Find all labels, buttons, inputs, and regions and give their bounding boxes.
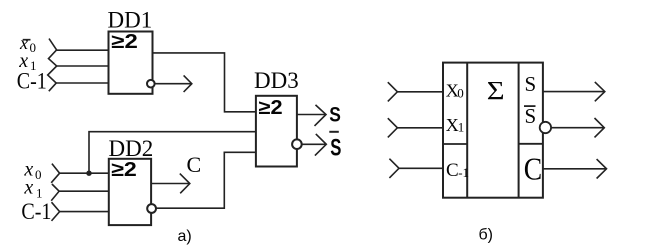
input chevron DD2 input 2 xyxy=(51,184,59,201)
svg-text:S: S xyxy=(330,135,341,162)
svg-text:0: 0 xyxy=(30,40,37,55)
gate DD2 box xyxy=(109,159,151,225)
wire DD2 input 3 xyxy=(60,211,109,213)
wire adder output C arrow xyxy=(543,168,606,170)
svg-text:≥2: ≥2 xyxy=(111,157,137,180)
svg-text:S: S xyxy=(329,103,341,127)
inversion bubble DD3 xyxy=(292,139,302,149)
inversion bubble DD1 xyxy=(147,80,155,88)
svg-text:S: S xyxy=(525,104,537,128)
gate DD3 box xyxy=(256,96,297,167)
overline of S̄ label xyxy=(329,131,339,133)
adder block outer box xyxy=(443,63,543,198)
wire DD2 output C arrow xyxy=(151,183,189,185)
arrowhead DD3 inverted output xyxy=(315,134,326,156)
svg-text:C: C xyxy=(446,160,459,181)
adder block divider right xyxy=(518,63,520,198)
junction dot on x0 wire xyxy=(86,171,91,176)
wire branch x0 to DD3 input 2 xyxy=(89,132,256,174)
arrowhead DD1 inverted output xyxy=(184,75,192,92)
svg-text:C: C xyxy=(524,153,542,187)
input chevron DD2 input 1 xyxy=(51,164,59,183)
pin label C-1 xyxy=(446,160,469,181)
wire adder input C-1 xyxy=(399,167,443,169)
svg-text:DD3: DD3 xyxy=(254,68,299,93)
input chevron adder X0 xyxy=(388,82,398,101)
inversion bubble adder S̄ output xyxy=(540,122,551,133)
wire adder output S̄ arrow xyxy=(551,127,604,129)
svg-text:≥2: ≥2 xyxy=(111,30,138,53)
arrowhead adder output S xyxy=(595,82,605,101)
wire DD2 input 2 xyxy=(59,190,109,192)
wire DD3 output S arrow xyxy=(297,114,326,116)
wire DD1 input 2 xyxy=(57,65,109,67)
gate DD1 box xyxy=(109,32,153,94)
svg-text:б): б) xyxy=(479,227,494,244)
wire DD1 inverted output arrow xyxy=(155,83,192,85)
input chevrons DD1 (zigzag) xyxy=(48,39,57,92)
overline of x̄0 xyxy=(23,39,31,41)
svg-text:C: C xyxy=(187,152,202,177)
svg-text:Σ: Σ xyxy=(487,78,505,106)
adder block left column partition xyxy=(443,143,467,145)
wire DD1 input 1 xyxy=(57,49,109,51)
svg-text:1: 1 xyxy=(458,120,465,135)
svg-text:C-1: C-1 xyxy=(17,68,47,94)
arrowhead adder output S̄ xyxy=(595,118,605,137)
inversion bubble DD2 xyxy=(147,204,156,213)
input chevron adder C-1 xyxy=(389,159,399,178)
overline of pin label S̄ xyxy=(524,105,536,107)
input chevron adder X1 xyxy=(388,118,398,137)
wire adder input X0 xyxy=(397,91,443,93)
label x̄0 (DD1 input 1) xyxy=(19,33,36,55)
wire DD2 input 1 xyxy=(60,172,109,174)
pin label X1 xyxy=(446,115,465,135)
arrowhead adder output C xyxy=(597,159,607,178)
label x1 (DD1 input 2) xyxy=(18,50,36,73)
svg-text:x: x xyxy=(23,177,33,199)
wire DD1 input 3 xyxy=(56,82,108,84)
pin label X0 xyxy=(446,81,464,101)
adder block right column partition xyxy=(519,143,543,145)
adder block divider left xyxy=(466,63,468,198)
wire DD1 output to DD3 input 1 xyxy=(153,53,256,112)
label x0 (DD2 input 1) xyxy=(23,159,41,182)
svg-text:0: 0 xyxy=(35,167,42,182)
wire adder input X1 xyxy=(397,127,443,129)
svg-text:C-1: C-1 xyxy=(21,199,51,225)
svg-text:0: 0 xyxy=(457,85,464,100)
arrowhead DD3 output S xyxy=(315,105,327,126)
wire DD3 inverted output arrow xyxy=(302,143,326,145)
svg-text:-1: -1 xyxy=(458,165,469,180)
svg-text:S: S xyxy=(525,72,537,96)
svg-text:DD1: DD1 xyxy=(108,7,153,32)
input chevron DD2 input 3 xyxy=(52,202,60,221)
svg-text:а): а) xyxy=(178,228,192,245)
wire adder output S arrow xyxy=(543,91,605,93)
svg-text:≥2: ≥2 xyxy=(259,97,283,119)
wire DD2 inverted output to DD3 input 3 xyxy=(156,152,256,208)
arrowhead DD2 output C xyxy=(180,174,190,194)
label x1 (DD2 input 2) xyxy=(23,177,42,201)
